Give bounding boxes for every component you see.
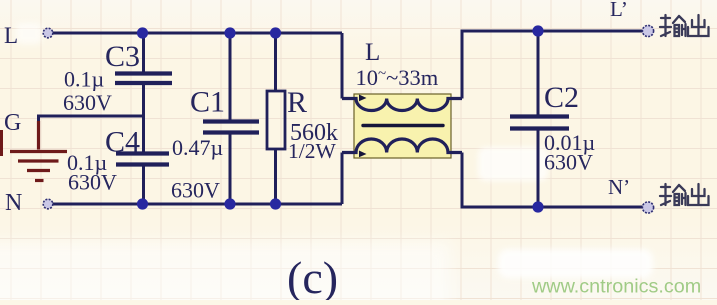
light area bottom-left <box>0 242 450 305</box>
svg-text:G: G <box>4 110 21 136</box>
junction bottom rail at C4 <box>137 198 148 209</box>
watermark remnant blob top-left <box>16 23 42 44</box>
terminal L <box>43 28 53 38</box>
inductor L top winding <box>342 99 462 111</box>
wire C1 branch vertical <box>229 33 232 204</box>
svg-text:1/2W: 1/2W <box>288 139 336 163</box>
svg-text:L: L <box>4 23 18 48</box>
svg-text:630V: 630V <box>171 178 220 203</box>
svg-text:L’: L’ <box>610 0 628 21</box>
wire ground G horizontal <box>39 116 144 122</box>
wire L' rail top-right <box>462 31 648 99</box>
ground bar 2 <box>18 159 59 162</box>
wire choke left lower vertical <box>341 153 344 205</box>
terminal N <box>43 199 53 209</box>
junction bottom right at C2 <box>532 201 543 212</box>
wire C3 C4 branch vertical <box>142 33 145 204</box>
ground bar 4 <box>35 179 44 182</box>
junction top rail at C1 <box>224 27 235 38</box>
svg-text:C1: C1 <box>190 86 225 119</box>
svg-text:C3: C3 <box>105 40 140 73</box>
wire N rail bottom-left <box>48 203 342 206</box>
wire N' rail bottom-right <box>462 153 648 208</box>
capacitor C2 <box>510 117 569 129</box>
svg-text:R: R <box>287 86 307 119</box>
wire R branch vertical <box>274 33 277 204</box>
inductor L choke body <box>354 94 451 158</box>
inductor bottom polarity arrow <box>359 151 367 158</box>
inductor L core <box>363 124 443 127</box>
inductor top polarity arrow <box>359 95 367 102</box>
junction top rail at C3 <box>137 27 148 38</box>
wire C2 branch vertical <box>537 31 540 207</box>
resistor R <box>267 91 285 149</box>
svg-text:C2: C2 <box>544 81 579 114</box>
svg-text:C4: C4 <box>105 126 140 159</box>
svg-text:N: N <box>5 190 22 216</box>
wire choke left upper vertical <box>341 33 344 99</box>
terminal L' <box>642 25 653 36</box>
junction bottom rail at R <box>270 198 281 209</box>
junction bottom rail at C1 <box>224 198 235 209</box>
svg-text:www.cntronics.com: www.cntronics.com <box>531 276 701 298</box>
svg-text:630V: 630V <box>63 90 112 115</box>
svg-text:630V: 630V <box>68 170 117 195</box>
capacitor C4 <box>116 154 169 165</box>
inductor L bottom winding <box>342 139 462 153</box>
ground bar 1 <box>10 150 67 153</box>
svg-text:N’: N’ <box>608 175 630 199</box>
terminal N' <box>642 202 653 213</box>
capacitor C1 <box>203 122 259 133</box>
capacitor C3 <box>115 74 172 84</box>
svg-text:0.1µ: 0.1µ <box>64 67 104 92</box>
junction top right at C2 <box>532 25 543 36</box>
svg-text:630V: 630V <box>544 150 593 175</box>
ground bar 3 <box>27 169 50 172</box>
junction top rail at R <box>270 27 281 38</box>
watermark remnant blob near C2 <box>478 147 548 181</box>
output text top (shu chu) <box>660 15 709 36</box>
watermark remnant blob bottom-right <box>498 249 653 278</box>
svg-text:0.47µ: 0.47µ <box>172 135 223 160</box>
svg-text:10~~33m: 10~~33m <box>356 65 439 90</box>
ground stem <box>37 121 40 150</box>
wire L rail top-left <box>48 32 342 35</box>
output text bottom (shu chu) <box>660 184 709 205</box>
svg-text:L: L <box>365 39 380 66</box>
svg-text:(c): (c) <box>287 252 338 300</box>
left edge artifact <box>0 130 3 156</box>
